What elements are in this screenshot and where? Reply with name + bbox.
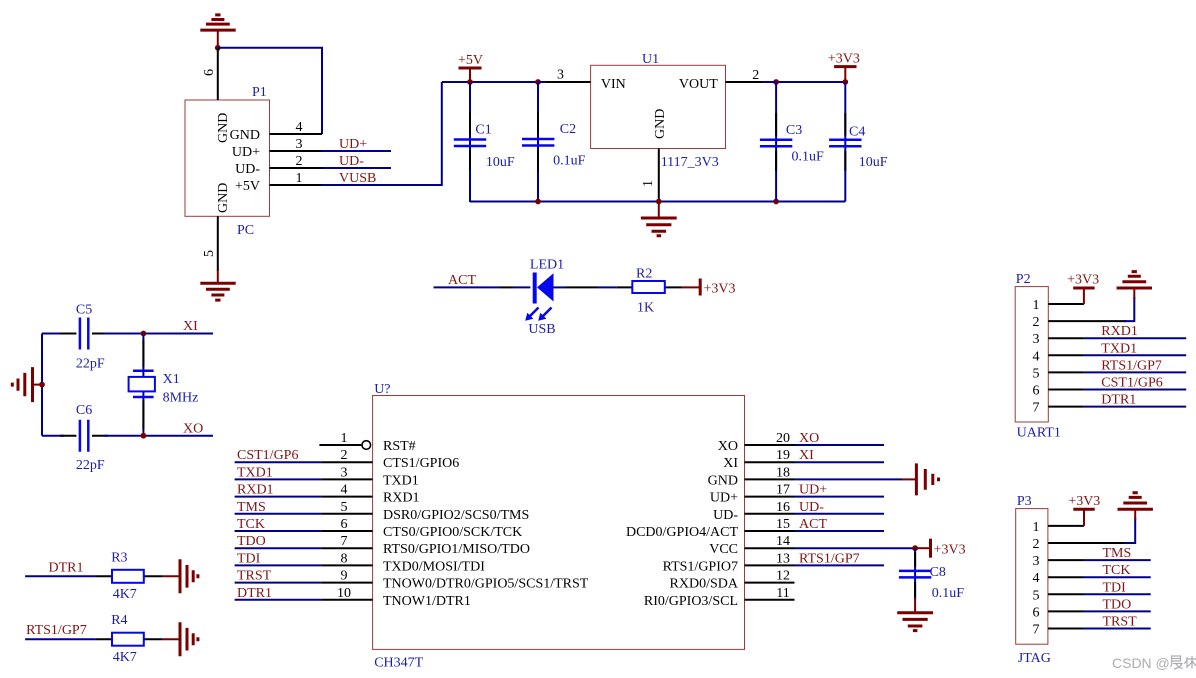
node (rail/U1 pin1) <box>656 199 662 205</box>
svg-text:RTS1/GPIO7: RTS1/GPIO7 <box>663 559 738 574</box>
svg-text:10uF: 10uF <box>486 155 515 170</box>
pin 6 of P1 <box>202 48 218 100</box>
pin 1 of U1 <box>641 149 659 201</box>
pin 1 of U? (RST#) <box>319 431 370 449</box>
pin 3 of U? <box>321 465 372 480</box>
pin 3 of U1 <box>538 68 591 83</box>
svg-text:R4: R4 <box>111 613 127 628</box>
crystal X1 8MHz <box>129 334 199 436</box>
ground (top of P1) <box>200 15 235 45</box>
wire / net ACT (to LED) <box>434 273 501 288</box>
svg-text:1: 1 <box>296 171 303 186</box>
svg-text:JTAG: JTAG <box>1018 651 1051 666</box>
wire / net VUSB <box>322 82 442 186</box>
svg-text:6: 6 <box>1033 605 1040 620</box>
svg-text:12: 12 <box>776 569 790 584</box>
resistor R3 4K7 <box>95 550 162 602</box>
svg-text:+5V: +5V <box>235 179 260 194</box>
svg-text:TCK: TCK <box>1103 563 1131 578</box>
svg-text:1: 1 <box>1033 298 1040 313</box>
svg-text:22pF: 22pF <box>76 458 105 473</box>
pin 1 of P1 <box>270 171 322 186</box>
connector P2 UART1 <box>1015 272 1061 441</box>
node (VCC/C8 junction) <box>912 545 918 551</box>
svg-text:18: 18 <box>776 465 790 480</box>
svg-text:1: 1 <box>341 431 348 446</box>
svg-text:1: 1 <box>641 180 656 187</box>
pin 5 of U? <box>321 500 372 515</box>
svg-text:X1: X1 <box>163 372 180 387</box>
svg-text:1K: 1K <box>637 301 654 316</box>
pin 5 of P1 <box>202 216 218 271</box>
svg-text:4: 4 <box>296 120 303 135</box>
svg-text:1: 1 <box>1033 520 1040 535</box>
svg-text:RTS1/GP7: RTS1/GP7 <box>799 551 860 566</box>
pin 6 of P3 / net TDO <box>1048 597 1151 612</box>
svg-text:USB: USB <box>528 322 555 337</box>
node (pin6/GND junction) <box>215 45 221 51</box>
wire (VCC to +3V3/C8) <box>795 547 916 549</box>
svg-text:C3: C3 <box>786 123 802 138</box>
LED LED1 USB <box>500 258 598 337</box>
svg-text:TDI: TDI <box>1103 580 1127 595</box>
pin 4 of P1 <box>270 120 323 135</box>
regulator U1 1117_3V3 <box>591 52 726 170</box>
wire / net XI (chip) <box>795 448 885 463</box>
wire / net RXD1 <box>235 483 322 498</box>
ground (P3) <box>1118 493 1153 509</box>
wire (GND to pin4) <box>218 48 322 134</box>
svg-text:15: 15 <box>776 517 790 532</box>
svg-text:+3V3: +3V3 <box>934 543 966 558</box>
ground (regulator) <box>641 202 677 236</box>
node (rail/C3/pin2) <box>773 79 779 85</box>
svg-text:+3V3: +3V3 <box>1067 273 1099 288</box>
pin 13 of U? <box>745 551 795 566</box>
svg-text:7: 7 <box>1033 401 1040 416</box>
wire (crystal loop left) <box>41 334 43 436</box>
power +3V3 (LED pullup) <box>682 279 736 297</box>
svg-text:0.1uF: 0.1uF <box>932 586 965 601</box>
svg-text:UD-: UD- <box>799 500 824 515</box>
svg-text:3: 3 <box>296 137 303 152</box>
pin 4 of U? <box>321 483 372 498</box>
svg-text:5: 5 <box>341 500 348 515</box>
ground (bottom of P1) <box>200 270 235 300</box>
capacitor C2 0.1uF <box>522 82 586 201</box>
pin 2 of U? <box>321 448 372 463</box>
svg-text:8: 8 <box>341 551 348 566</box>
pin 2 of U1 <box>726 68 777 83</box>
svg-text:6: 6 <box>1033 384 1040 399</box>
svg-text:LED1: LED1 <box>530 258 564 273</box>
svg-text:R3: R3 <box>111 550 127 565</box>
wire / net TCK <box>235 517 322 532</box>
svg-text:C5: C5 <box>76 302 92 317</box>
pin 2 of P3 / wire to ground <box>1048 509 1135 543</box>
svg-text:TDI: TDI <box>237 551 261 566</box>
watermark <box>1112 655 1196 671</box>
svg-text:DSR0/GPIO2/SCS0/TMS: DSR0/GPIO2/SCS0/TMS <box>383 508 529 523</box>
svg-text:XI: XI <box>723 456 738 471</box>
svg-text:C8: C8 <box>930 565 946 580</box>
svg-text:19: 19 <box>776 448 790 463</box>
svg-text:2: 2 <box>1033 315 1040 330</box>
wire (LED to R2) <box>598 286 617 288</box>
svg-text:2: 2 <box>296 154 303 169</box>
node (rail/C3 bottom) <box>773 199 779 205</box>
capacitor C6 22pF <box>42 403 143 473</box>
svg-text:10: 10 <box>337 586 351 601</box>
pin 18 of U? <box>745 465 795 480</box>
wire / net UD- <box>322 154 392 169</box>
svg-text:2: 2 <box>341 448 348 463</box>
svg-text:C6: C6 <box>76 403 92 418</box>
svg-text:CST1/GP6: CST1/GP6 <box>237 448 298 463</box>
svg-text:0.1uF: 0.1uF <box>553 154 586 169</box>
svg-text:TNOW0/DTR0/GPIO5/SCS1/TRST: TNOW0/DTR0/GPIO5/SCS1/TRST <box>383 577 589 592</box>
node (rail/C2/pin3) <box>535 79 541 85</box>
svg-text:U?: U? <box>374 382 390 397</box>
power +5V <box>458 53 483 82</box>
svg-text:UART1: UART1 <box>1017 426 1061 441</box>
svg-text:+3V3: +3V3 <box>828 51 860 66</box>
node (XI / crystal) <box>141 331 147 337</box>
svg-text:VCC: VCC <box>709 542 738 557</box>
pin 7 of P2 / net DTR1 <box>1048 393 1186 408</box>
wire / net DTR1 (to R3) <box>25 560 95 576</box>
svg-text:2: 2 <box>752 68 759 83</box>
ground (C8) <box>897 598 933 631</box>
svg-text:10uF: 10uF <box>859 155 888 170</box>
svg-text:TMS: TMS <box>237 500 266 515</box>
svg-text:GND: GND <box>708 473 738 488</box>
svg-text:VOUT: VOUT <box>679 77 718 92</box>
svg-text:RI0/GPIO3/SCL: RI0/GPIO3/SCL <box>644 594 738 609</box>
svg-text:5: 5 <box>1033 366 1040 381</box>
svg-text:+5V: +5V <box>458 53 483 68</box>
svg-text:7: 7 <box>341 534 348 549</box>
svg-text:6: 6 <box>341 517 348 532</box>
svg-text:4: 4 <box>1033 571 1040 586</box>
svg-text:9: 9 <box>341 569 348 584</box>
svg-text:UD+: UD+ <box>339 137 367 152</box>
resistor R4 4K7 <box>95 613 162 665</box>
wire / net CST1/GP6 <box>235 448 322 463</box>
wire / net TRST <box>235 569 322 584</box>
svg-text:CTS0/GPIO0/SCK/TCK: CTS0/GPIO0/SCK/TCK <box>383 525 522 540</box>
pin 8 of U? <box>321 551 372 566</box>
svg-text:XO: XO <box>183 422 203 437</box>
svg-text:RTS1/GP7: RTS1/GP7 <box>26 623 87 638</box>
pin 6 of P2 / net CST1/GP6 <box>1048 376 1186 391</box>
IC U? CH347T <box>373 382 745 671</box>
pin 10 of U? <box>321 586 372 601</box>
capacitor C1 10uF <box>454 82 515 202</box>
pin 16 of U? <box>745 500 795 515</box>
svg-text:TNOW1/DTR1: TNOW1/DTR1 <box>383 594 471 609</box>
pin 20 of U? <box>745 431 795 446</box>
capacitor C3 0.1uF <box>760 82 824 202</box>
pin 17 of U? <box>745 483 795 498</box>
pin 14 of U? (VCC) <box>745 534 795 549</box>
node (rail/+5V/C1) <box>467 79 473 85</box>
svg-text:CTS1/GPIO6: CTS1/GPIO6 <box>383 456 459 471</box>
svg-text:TXD0/MOSI/TDI: TXD0/MOSI/TDI <box>383 559 485 574</box>
wire / net ACT (chip) <box>795 517 885 532</box>
svg-text:UD-: UD- <box>235 162 260 177</box>
svg-text:22pF: 22pF <box>76 357 105 372</box>
svg-text:2: 2 <box>1033 537 1040 552</box>
ground (R3) <box>163 559 198 593</box>
svg-text:0.1uF: 0.1uF <box>792 150 825 165</box>
svg-text:20: 20 <box>776 431 790 446</box>
ground (crystal) <box>12 367 44 402</box>
svg-text:UD+: UD+ <box>232 145 260 160</box>
svg-text:DCD0/GPIO4/ACT: DCD0/GPIO4/ACT <box>626 525 738 540</box>
capacitor C5 22pF <box>42 302 143 371</box>
wire / net XO <box>143 422 213 437</box>
svg-text:C4: C4 <box>849 124 865 139</box>
pin 6 of U? <box>321 517 372 532</box>
svg-text:PC: PC <box>237 223 254 238</box>
pin 19 of U? <box>745 448 795 463</box>
svg-text:VUSB: VUSB <box>339 171 376 186</box>
svg-text:DTR1: DTR1 <box>49 560 84 575</box>
svg-text:R2: R2 <box>636 267 652 282</box>
wire / net TXD1 <box>235 465 322 480</box>
pin 9 of U? <box>321 569 372 584</box>
svg-text:UD+: UD+ <box>710 491 738 506</box>
svg-text:XO: XO <box>718 439 738 454</box>
connector P1 <box>185 85 270 238</box>
svg-text:DTR1: DTR1 <box>1101 393 1136 408</box>
svg-text:XO: XO <box>799 431 819 446</box>
svg-text:+3V3: +3V3 <box>704 282 736 297</box>
svg-text:TDO: TDO <box>1103 597 1132 612</box>
svg-text:17: 17 <box>776 483 790 498</box>
svg-text:TDO: TDO <box>237 534 266 549</box>
power +3V3 (VCC) <box>915 539 966 558</box>
svg-text:ACT: ACT <box>448 273 476 288</box>
wire / net TDO <box>235 534 322 549</box>
wire / net RTS1/GP7 (to R4) <box>25 623 95 639</box>
wire (+5V top rail) <box>442 81 846 83</box>
svg-text:UD-: UD- <box>713 508 738 523</box>
svg-text:3: 3 <box>1033 332 1040 347</box>
svg-text:RXD1: RXD1 <box>383 491 420 506</box>
svg-text:CH347T: CH347T <box>374 656 423 671</box>
svg-text:7: 7 <box>1033 623 1040 638</box>
pin 4 of P2 / net TXD1 <box>1048 341 1186 356</box>
svg-text:GND: GND <box>653 109 668 139</box>
svg-text:8MHz: 8MHz <box>163 391 199 406</box>
svg-text:3: 3 <box>1033 554 1040 569</box>
resistor R2 1K <box>617 267 682 316</box>
pin 11 of U? <box>745 586 795 601</box>
svg-text:XI: XI <box>799 448 814 463</box>
svg-text:4: 4 <box>1033 349 1040 364</box>
svg-text:GND: GND <box>216 183 231 213</box>
node (rail/C4/+3V3) <box>842 79 848 85</box>
wire / net UD+ <box>322 137 392 152</box>
svg-text:RXD1: RXD1 <box>237 483 274 498</box>
svg-text:GND: GND <box>230 128 260 143</box>
svg-text:TRST: TRST <box>1103 615 1138 630</box>
node (left rail / ground) <box>39 382 45 388</box>
svg-text:TXD1: TXD1 <box>383 473 419 488</box>
svg-text:XI: XI <box>183 319 198 334</box>
svg-text:RXD1: RXD1 <box>1101 324 1138 339</box>
pin 1 of P3 / power +3V3 <box>1048 494 1100 526</box>
capacitor C8 0.1uF <box>899 548 964 601</box>
svg-text:CST1/GP6: CST1/GP6 <box>1101 376 1162 391</box>
pin 12 of U? <box>745 569 795 584</box>
wire (GND pin to ground) <box>795 478 903 480</box>
pin 15 of U? <box>745 517 795 532</box>
svg-text:TCK: TCK <box>237 517 265 532</box>
svg-text:1117_3V3: 1117_3V3 <box>661 155 719 170</box>
svg-text:U1: U1 <box>642 52 659 67</box>
svg-text:P1: P1 <box>252 85 267 100</box>
svg-text:5: 5 <box>1033 588 1040 603</box>
svg-text:P3: P3 <box>1017 494 1032 509</box>
pin 2 of P2 / wire to ground <box>1048 288 1134 321</box>
svg-text:4K7: 4K7 <box>113 587 137 602</box>
node (rail/C2 bottom) <box>535 199 541 205</box>
pin 3 of P2 / net RXD1 <box>1048 324 1186 339</box>
svg-text:P2: P2 <box>1016 272 1031 287</box>
wire / net XO (chip) <box>795 431 885 446</box>
svg-text:3: 3 <box>341 465 348 480</box>
svg-text:TXD1: TXD1 <box>1101 341 1137 356</box>
svg-text:DTR1: DTR1 <box>237 586 272 601</box>
connector P3 JTAG <box>1016 494 1051 666</box>
pin 7 of U? <box>321 534 372 549</box>
svg-text:6: 6 <box>202 69 217 76</box>
svg-text:TMS: TMS <box>1103 546 1132 561</box>
pin 3 of P3 / net TMS <box>1048 546 1151 561</box>
pin 1 of P2 / power +3V3 <box>1048 273 1099 305</box>
wire / net TMS <box>235 500 322 515</box>
svg-text:VIN: VIN <box>601 77 626 92</box>
svg-text:RST#: RST# <box>383 439 416 454</box>
wire / net UD+ (chip) <box>795 483 885 498</box>
svg-text:5: 5 <box>202 250 217 257</box>
svg-text:+3V3: +3V3 <box>1068 494 1100 509</box>
svg-text:ACT: ACT <box>799 517 827 532</box>
svg-text:TRST: TRST <box>237 569 272 584</box>
pin 3 of P1 <box>270 137 322 152</box>
svg-text:RXD0/SDA: RXD0/SDA <box>670 577 739 592</box>
power +3V3 (regulator output) <box>828 51 860 82</box>
svg-text:C1: C1 <box>475 123 491 138</box>
wire / net XI <box>143 319 213 334</box>
pin 4 of P3 / net TCK <box>1048 563 1151 578</box>
svg-text:RTS1/GP7: RTS1/GP7 <box>1101 358 1162 373</box>
svg-text:C2: C2 <box>560 122 576 137</box>
svg-text:14: 14 <box>776 534 790 549</box>
ground (P2) <box>1117 272 1152 288</box>
pin 5 of P3 / net TDI <box>1048 580 1151 595</box>
wire / net RTS1/GP7 (chip) <box>795 551 885 566</box>
wire / net TDI <box>235 551 322 566</box>
svg-text:11: 11 <box>776 586 789 601</box>
pin 2 of P1 <box>270 154 322 169</box>
svg-text:13: 13 <box>776 551 790 566</box>
svg-text:4K7: 4K7 <box>113 650 137 665</box>
svg-text:UD-: UD- <box>339 154 364 169</box>
svg-text:3: 3 <box>557 68 564 83</box>
ground (chip GND pin) <box>902 463 939 495</box>
pin 7 of P3 / net TRST <box>1048 615 1151 630</box>
pin 5 of P2 / net RTS1/GP7 <box>1048 358 1186 373</box>
svg-text:RTS0/GPIO1/MISO/TDO: RTS0/GPIO1/MISO/TDO <box>383 542 530 557</box>
wire (bottom GND rail) <box>470 201 845 203</box>
node (XO / crystal) <box>141 433 147 439</box>
wire / net UD- (chip) <box>795 500 885 515</box>
svg-text:UD+: UD+ <box>799 483 827 498</box>
ground (R4) <box>163 622 198 656</box>
svg-text:16: 16 <box>776 500 790 515</box>
capacitor C4 10uF <box>829 82 888 202</box>
wire / net DTR1 <box>235 586 322 601</box>
svg-text:4: 4 <box>341 483 348 498</box>
svg-text:TXD1: TXD1 <box>237 465 273 480</box>
